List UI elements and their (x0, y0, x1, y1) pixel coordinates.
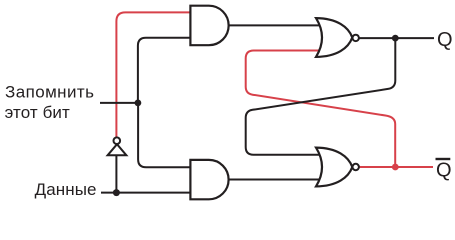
AND gate U1 (top) (190, 6, 228, 46)
junction: data node (black dot) (113, 189, 120, 196)
junction: Qbar node (red dot) (392, 164, 399, 171)
wire: enable branch down to bottom AND upper input (138, 103, 195, 167)
wire: inverter output to top AND upper input (red) (116, 12, 195, 141)
NOR gate U3 output bubble (353, 35, 359, 41)
wire: enable branch up to top AND lower input (138, 38, 195, 103)
overline of Qbar (436, 158, 451, 160)
wire: enable input from label (100, 102, 136, 104)
NOR gate U4 (bottom) body (316, 148, 352, 187)
svg-text:Q: Q (437, 29, 453, 51)
NOR gate U3 (top) body (316, 18, 352, 57)
junction: enable node (black dot) (135, 100, 142, 107)
inverter bubble (114, 137, 121, 144)
svg-text:этот бит: этот бит (5, 103, 70, 122)
wire: data input line to bottom AND lower input (101, 192, 195, 194)
wire: bottom AND output to bottom NOR lower input (226, 179, 324, 181)
inverter triangle (108, 144, 127, 155)
wire: Q feedback down-left to bottom NOR upper input (246, 38, 396, 155)
svg-text:Запомнить: Запомнить (5, 82, 94, 101)
wire: NOR1 output to Q terminal (355, 37, 434, 39)
svg-text:Q: Q (436, 160, 452, 182)
wire: Qbar feedback (red) from Qbar junction up-left to top NOR lower input (246, 51, 396, 168)
wire: data up to inverter input (115, 152, 117, 193)
wire: NOR2 output to Qbar terminal (red) (355, 166, 433, 168)
svg-text:Данные: Данные (35, 180, 97, 199)
NOR gate U4 output bubble (353, 164, 359, 170)
wire: top AND output to top NOR upper input (226, 24, 324, 26)
AND gate U2 (bottom) (190, 160, 228, 199)
junction: Q node (black dot) (392, 35, 399, 42)
